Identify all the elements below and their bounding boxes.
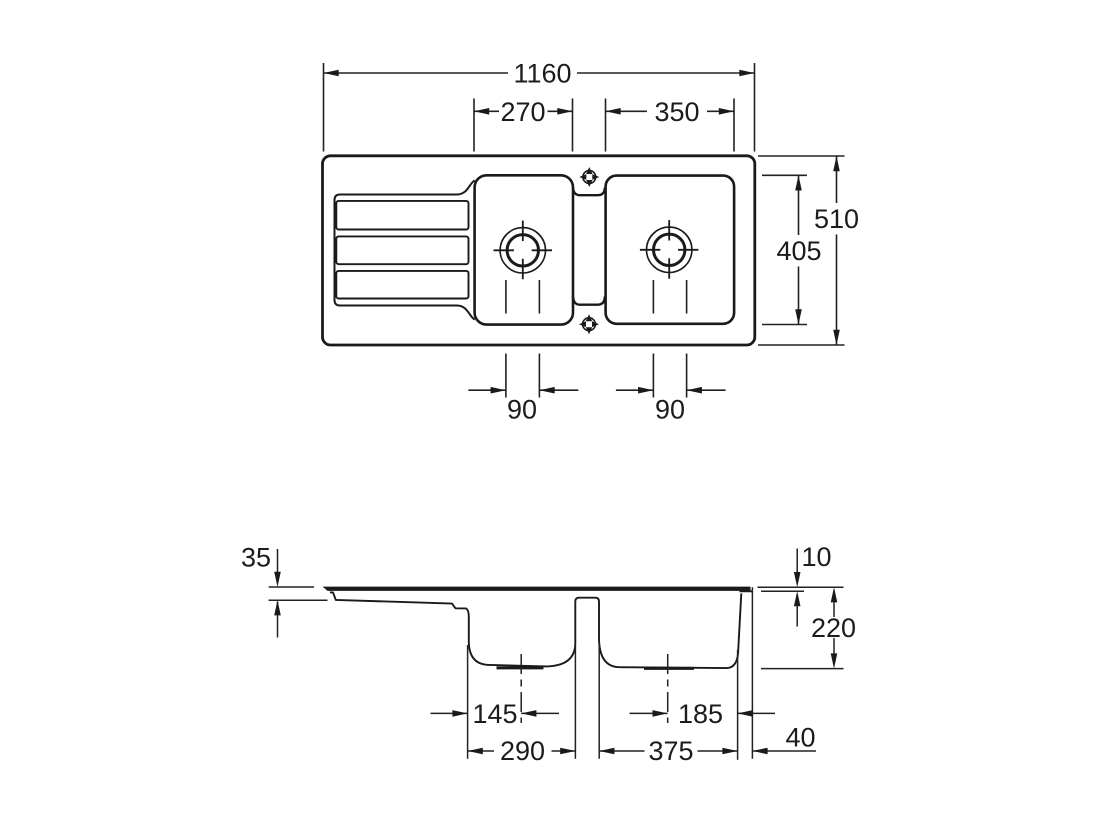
svg-text:145: 145 bbox=[472, 699, 517, 729]
svg-text:405: 405 bbox=[776, 236, 821, 266]
svg-text:1160: 1160 bbox=[513, 59, 571, 89]
svg-text:375: 375 bbox=[648, 736, 693, 766]
svg-text:185: 185 bbox=[678, 699, 723, 729]
svg-text:90: 90 bbox=[507, 395, 537, 425]
svg-text:290: 290 bbox=[500, 736, 545, 766]
svg-text:35: 35 bbox=[241, 543, 271, 573]
svg-text:270: 270 bbox=[500, 97, 545, 127]
svg-text:510: 510 bbox=[814, 204, 859, 234]
svg-text:40: 40 bbox=[785, 723, 815, 753]
svg-text:10: 10 bbox=[801, 542, 831, 572]
svg-text:220: 220 bbox=[811, 613, 856, 643]
svg-text:350: 350 bbox=[654, 97, 699, 127]
svg-text:90: 90 bbox=[655, 395, 685, 425]
